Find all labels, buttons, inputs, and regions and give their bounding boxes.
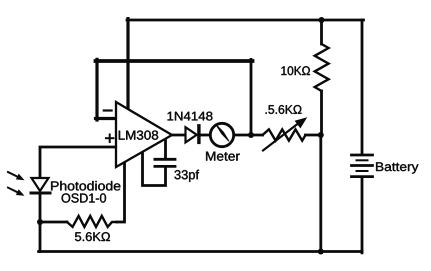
capacitor C 33pf bottom plate bbox=[155, 165, 175, 168]
wire right branch down to rail bbox=[319, 135, 322, 252]
wire meter to pot bbox=[234, 134, 263, 137]
wire 5.6K feedback riser to op-amp underside bbox=[117, 162, 125, 223]
wire photodiode cathode down bbox=[39, 194, 42, 222]
label Meter bbox=[206, 152, 240, 161]
wire bottom-left drop to ground rail bbox=[39, 222, 42, 252]
battery long plate 2 bbox=[352, 164, 373, 167]
photodiode D2 cathode bar bbox=[31, 192, 50, 195]
light arrow 2 shaft bbox=[8, 188, 19, 193]
capacitor C 33pf top stub to op-amp edge bbox=[164, 139, 167, 159]
capacitor C 33pf bottom return loop to op-amp edge bbox=[143, 152, 166, 186]
wire battery bottom lead bbox=[361, 177, 364, 253]
light arrow 2 head bbox=[16, 189, 25, 196]
label .5.6KΩ bbox=[266, 105, 302, 114]
wire diode to meter bbox=[200, 134, 211, 137]
junction node top rail/10K bbox=[319, 17, 325, 23]
wire top rail V+ bbox=[127, 19, 364, 22]
junction node output/feedback/pot bbox=[248, 132, 254, 138]
light arrow 1 head bbox=[16, 174, 25, 181]
diode D1 cathode bar bbox=[197, 126, 200, 143]
junction node bottom rail/right drop bbox=[318, 249, 324, 255]
label Photodiode bbox=[51, 181, 120, 191]
wire pot to right branch bbox=[306, 134, 322, 137]
wire feedback loop: minus input stub bbox=[96, 117, 117, 120]
op-amp minus sign bbox=[104, 109, 112, 111]
potentiometer arrowhead bbox=[295, 117, 308, 128]
battery short plate 2 bbox=[357, 170, 368, 172]
wire bottom rail bbox=[39, 250, 362, 253]
op-amp U1 LM308 triangle bbox=[116, 102, 172, 167]
meter needle bbox=[216, 124, 230, 141]
label LM308 bbox=[119, 131, 158, 140]
label 1N4148 bbox=[168, 112, 213, 121]
wire feedback loop: top horizontal bbox=[96, 59, 253, 63]
wire 5.6K left lead bbox=[40, 221, 67, 224]
resistor 10K zigzag bbox=[315, 44, 329, 91]
junction node photodiode/5.6K/rail bbox=[37, 219, 43, 225]
label Battery bbox=[376, 162, 418, 173]
wire V+ supply drop to op-amp bbox=[126, 19, 129, 107]
meter M1 circle bbox=[210, 123, 233, 146]
wire feedback loop: left vertical bbox=[95, 59, 98, 120]
wire right vertical to battery bbox=[361, 20, 364, 154]
resistor 5.6K zigzag (photodiode load) bbox=[67, 216, 117, 227]
junction node pot/10K/rail drop bbox=[318, 132, 324, 138]
op-amp plus sign bbox=[106, 137, 113, 139]
label OSD1-0 bbox=[62, 193, 106, 202]
battery long plate 1 bbox=[352, 154, 373, 157]
wire 10K bottom lead bbox=[320, 91, 323, 135]
label 33pf bbox=[174, 170, 199, 182]
label 5.6KΩ bbox=[75, 232, 110, 241]
wire feedback loop: right vertical down to output node bbox=[250, 59, 253, 135]
battery long plate 3 bbox=[352, 175, 373, 178]
capacitor C 33pf top plate bbox=[155, 158, 175, 161]
diode D1 1N4148 triangle bbox=[186, 127, 197, 142]
photodiode D2 triangle bbox=[32, 178, 49, 191]
label 10KΩ bbox=[281, 66, 310, 75]
battery short plate 1 bbox=[357, 159, 368, 161]
wire plus input bbox=[40, 147, 116, 178]
wire op-amp output to diode bbox=[172, 134, 186, 137]
light arrow 1 shaft bbox=[8, 172, 19, 177]
potentiometer arrow shaft bbox=[263, 121, 302, 151]
potentiometer .5.6K zigzag bbox=[263, 129, 306, 140]
wire 10K top lead bbox=[320, 20, 323, 44]
